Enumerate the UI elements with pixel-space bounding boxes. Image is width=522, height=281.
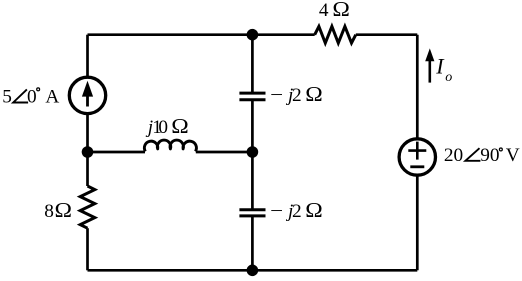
svg-text:Ω: Ω [171,114,189,138]
svg-text:20: 20 [444,145,463,166]
wire top-right (4ohm to right corner) [356,33,418,36]
svg-text:Ω: Ω [305,82,323,106]
svg-text:−: − [270,85,283,106]
svg-text:5: 5 [2,86,12,107]
svg-text:V: V [506,145,520,166]
wire middle branch lower (C2 to node D) [251,216,254,270]
svg-text:Ω: Ω [332,0,350,21]
wire middle branch (node C to C2) [251,152,254,210]
wire middle horizontal right (inductor to node C) [196,151,253,154]
label -j2 Ω (bottom) [270,198,323,222]
resistor 4 Ohm [315,26,356,43]
label 5∠0° A [2,86,59,107]
capacitor -j2 Ohm (top) [239,93,265,100]
wire left branch upper [86,35,89,78]
label -j2 Ω (top) [270,82,323,106]
svg-text:Ω: Ω [55,198,73,222]
wire right branch lower [416,175,419,270]
label Io [435,54,452,86]
wire middle horizontal left (node B to inductor) [88,151,146,154]
svg-text:Ω: Ω [305,198,323,222]
wire bottom [88,269,418,272]
label 8 Ω [44,198,72,222]
svg-text:2: 2 [292,85,302,106]
label j10 Ω [145,114,189,138]
inductor j10 Ohm [144,140,196,151]
wire right branch upper [416,35,419,139]
svg-text:8: 8 [44,201,54,222]
voltage source 20∠90° V [399,139,435,175]
wire middle branch upper (node A to C1) [251,35,254,93]
capacitor -j2 Ohm (bottom) [239,210,265,216]
svg-text:A: A [45,86,59,107]
svg-text:0: 0 [158,117,168,138]
svg-text:o: o [445,70,452,85]
svg-text:4: 4 [319,0,329,21]
wire top-left (node A to 4ohm) [88,33,315,36]
resistor 8 Ohm [80,186,95,228]
label 4 Ω [319,0,350,21]
current arrow Io [425,48,434,82]
node C (center middle) [247,146,259,158]
svg-text:2: 2 [292,201,302,222]
wire middle branch (C1 to node C) [251,100,254,152]
node D (bottom middle) [247,265,259,277]
wire left branch lower [86,228,89,270]
svg-text:0: 0 [27,86,37,107]
label 20∠90° V [444,145,520,166]
svg-text:90: 90 [480,145,499,166]
wire left branch middle [86,114,89,186]
current source 5∠0° A [69,77,105,113]
node A (top middle) [247,29,259,41]
node B (left middle) [82,146,94,158]
svg-text:−: − [270,201,283,222]
